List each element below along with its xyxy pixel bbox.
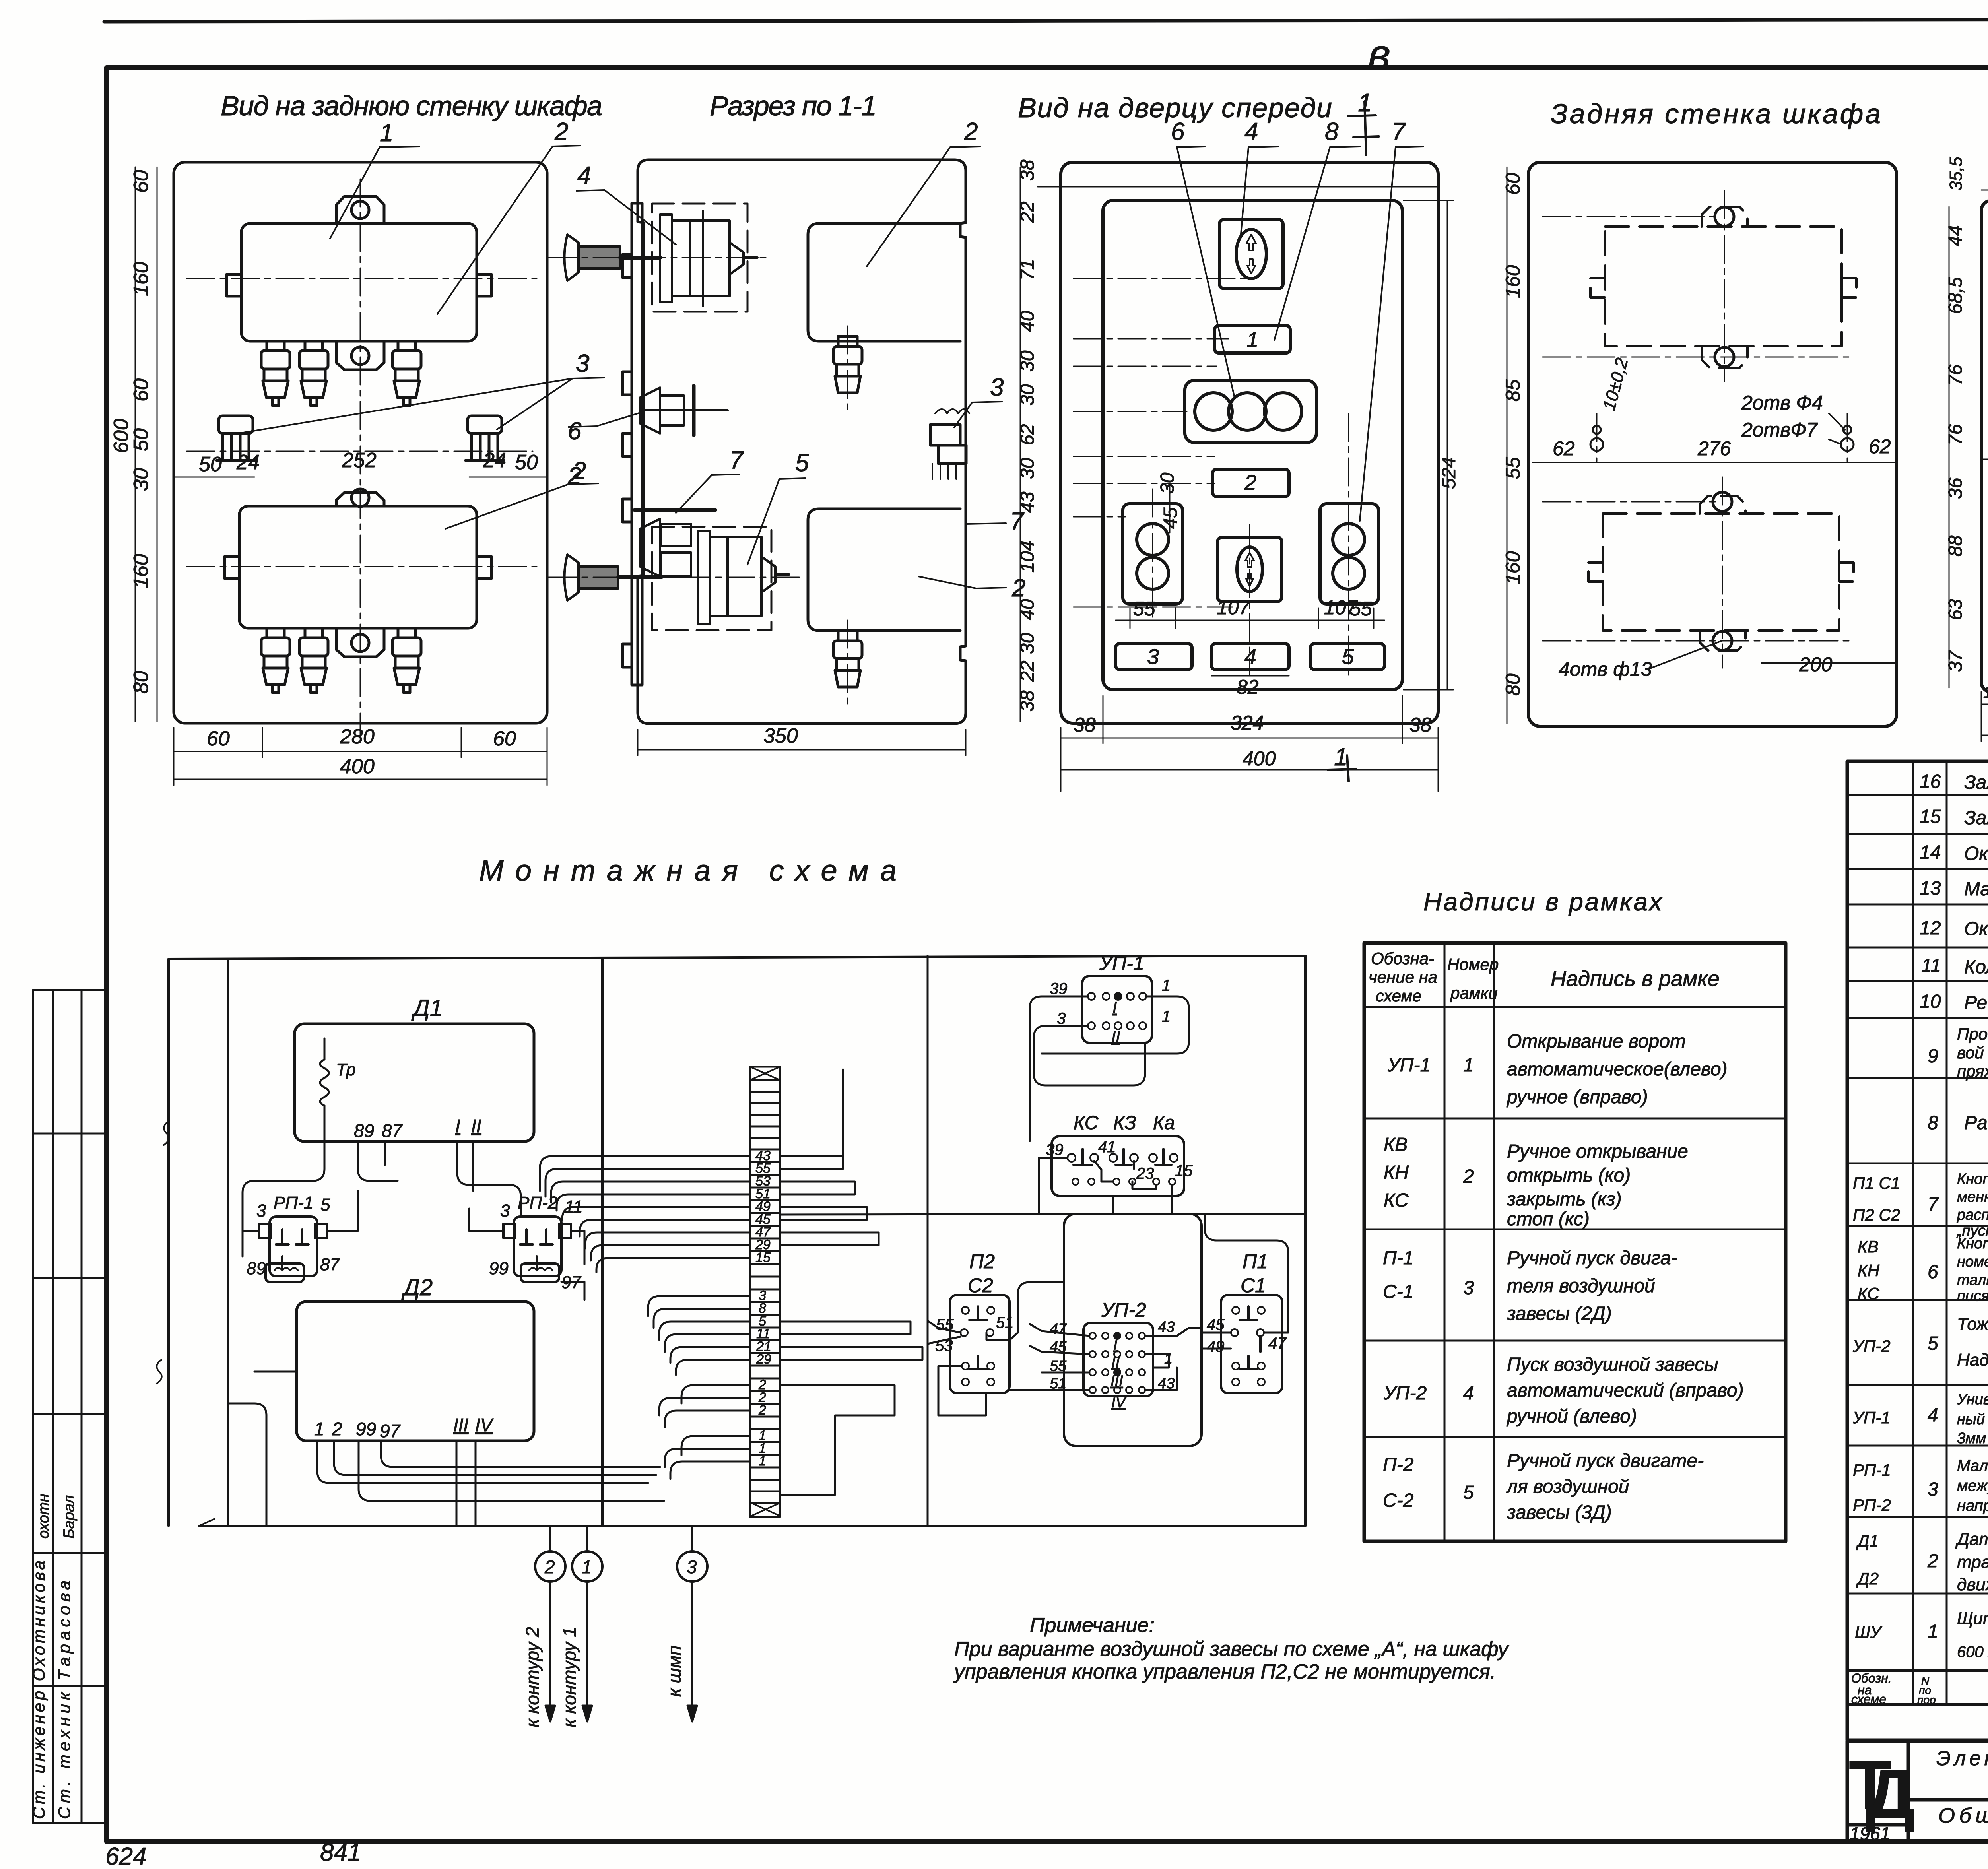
svg-text:30: 30	[1017, 633, 1038, 654]
svg-text:45: 45	[1207, 1316, 1225, 1333]
svg-text:Задняя стенка шкафа: Задняя стенка шкафа	[1551, 98, 1881, 129]
svg-text:1: 1	[759, 1454, 766, 1469]
wires: D1/D2 to strip and relays	[228, 1133, 664, 1526]
svg-text:45: 45	[1160, 507, 1181, 529]
svg-text:62: 62	[1553, 437, 1575, 460]
svg-text:1: 1	[1246, 328, 1258, 352]
svg-text:завесы (2Д): завесы (2Д)	[1507, 1303, 1612, 1324]
svg-text:П-1: П-1	[1383, 1248, 1413, 1269]
spec rows text	[1852, 771, 1988, 1661]
svg-text:23: 23	[1136, 1165, 1154, 1182]
wires from buttons block	[1039, 1158, 1172, 1214]
svg-text:3: 3	[1463, 1277, 1474, 1298]
svg-text:4: 4	[1463, 1383, 1474, 1404]
svg-text:38: 38	[1017, 690, 1038, 712]
relay item3 on right wall	[930, 425, 960, 445]
svg-text:62: 62	[1017, 424, 1038, 445]
svg-text:38: 38	[1409, 714, 1432, 736]
svg-text:Ручное открывание: Ручное открывание	[1507, 1141, 1688, 1162]
svg-text:Надписи в рамках: Надписи в рамках	[1423, 887, 1663, 916]
svg-text:2отв Ф4: 2отв Ф4	[1741, 392, 1823, 414]
wires UP-1	[1030, 996, 1189, 1141]
svg-text:II: II	[1111, 1355, 1120, 1371]
spec header row	[1851, 1671, 1988, 1739]
svg-text:5: 5	[1928, 1333, 1938, 1354]
svg-text:III: III	[1110, 1373, 1123, 1390]
door chambers seen in section	[808, 223, 969, 687]
SPECIFICATION TABLE	[1847, 761, 1988, 1740]
svg-text:29: 29	[756, 1352, 771, 1367]
svg-text:тального расположения с опера: тального расположения с оперативными над…	[1957, 1272, 1988, 1289]
view2 centerlines	[549, 258, 848, 704]
relay RP-2	[503, 1217, 571, 1282]
svg-text:24: 24	[483, 449, 506, 472]
svg-text:60: 60	[130, 378, 153, 402]
VIEW 2 : section 1-1	[623, 160, 966, 724]
svg-text:41: 41	[1098, 1138, 1116, 1156]
terminal circle 2	[535, 1551, 565, 1582]
D2 cable connectors x3	[261, 628, 290, 693]
svg-text:РП-2: РП-2	[1853, 1496, 1891, 1514]
svg-text:15: 15	[1175, 1162, 1193, 1180]
svg-text:5: 5	[320, 1195, 330, 1215]
svg-text:39: 39	[1050, 980, 1068, 998]
svg-text:47: 47	[1268, 1335, 1287, 1352]
VIEW 5 : cabinet door plate	[1981, 200, 1988, 692]
svg-text:Щит шкафной малогабаритный: Щит шкафной малогабаритный	[1957, 1609, 1988, 1628]
svg-text:3: 3	[256, 1201, 266, 1221]
svg-text:8: 8	[1325, 118, 1339, 146]
svg-text:С-1: С-1	[1383, 1281, 1413, 1302]
svg-text:85: 85	[1502, 379, 1524, 402]
svg-text:7: 7	[730, 446, 744, 474]
connector under upper chamber	[838, 336, 857, 347]
svg-text:Барал: Барал	[61, 1495, 78, 1539]
svg-text:Примечание:: Примечание:	[1030, 1614, 1155, 1637]
svg-text:2: 2	[554, 118, 568, 146]
cabinet body section outline	[638, 160, 966, 724]
svg-text:Пуск воздушной завесы: Пуск воздушной завесы	[1507, 1354, 1718, 1375]
svg-text:3: 3	[687, 1557, 697, 1577]
svg-text:УП-1: УП-1	[1099, 952, 1144, 974]
svg-text:писями „ открыть“ „закрыть“: писями „ открыть“ „закрыть“ „стоп“	[1957, 1288, 1988, 1304]
svg-text:РП-1: РП-1	[1853, 1461, 1891, 1479]
svg-text:Универсальный переключатель дв: Универсальный переключатель двух-секцион…	[1957, 1391, 1988, 1408]
push buttons P2 S2	[1123, 504, 1182, 604]
svg-text:Зажимы коммутационные: Зажимы коммутационные	[1964, 772, 1988, 793]
svg-text:Разрез по 1-1: Разрез по 1-1	[710, 90, 877, 121]
svg-text:УП-1: УП-1	[1852, 1408, 1891, 1427]
svg-text:71: 71	[1017, 259, 1038, 280]
svg-text:1: 1	[1162, 977, 1171, 994]
svg-text:закрыть (кз): закрыть (кз)	[1507, 1189, 1622, 1210]
svg-text:Д: Д	[1866, 1755, 1915, 1833]
svg-text:Д2: Д2	[401, 1275, 433, 1300]
svg-text:1: 1	[582, 1557, 592, 1577]
wire drop 3	[691, 1526, 693, 1551]
frame 2	[1213, 469, 1289, 497]
svg-text:80: 80	[1502, 673, 1524, 696]
svg-text:30: 30	[130, 468, 153, 491]
svg-text:200: 200	[1799, 653, 1833, 675]
svg-text:10: 10	[1920, 991, 1941, 1012]
svg-text:Тоже четырехсекционный: Тоже четырехсекционный	[1957, 1314, 1988, 1334]
wire drop 2	[549, 1526, 551, 1551]
svg-text:пряжи, лакированный сеч. 1,5: пряжи, лакированный сеч. 1,5 кв. мм.	[1957, 1062, 1988, 1081]
svg-text:ШУ: ШУ	[1855, 1623, 1883, 1642]
door inner panel	[1103, 200, 1402, 690]
svg-text:276: 276	[1697, 437, 1731, 460]
svg-text:I: I	[1112, 999, 1117, 1017]
VIEW 4 : rear wall plate	[1528, 162, 1897, 726]
svg-text:40: 40	[1017, 599, 1038, 620]
svg-text:ля воздушной: ля воздушной	[1506, 1476, 1629, 1497]
view5 dims	[1949, 190, 1988, 741]
svg-text:Номер: Номер	[1447, 955, 1499, 974]
svg-text:2: 2	[567, 462, 581, 490]
svg-text:Д2: Д2	[1856, 1569, 1879, 1588]
view1 dimension lines	[135, 167, 547, 785]
D1 side lugs	[227, 274, 241, 296]
svg-text:99: 99	[489, 1259, 509, 1278]
svg-text:841: 841	[320, 1839, 361, 1866]
svg-text:УП-2: УП-2	[1852, 1337, 1891, 1355]
svg-text:22: 22	[1017, 202, 1038, 223]
svg-text:7: 7	[1392, 118, 1406, 146]
svg-text:к контуру 2: к контуру 2	[522, 1627, 543, 1727]
svg-text:автоматическое(влево): автоматическое(влево)	[1507, 1059, 1728, 1080]
wires UP-2	[1010, 1324, 1202, 1390]
svg-text:2: 2	[1927, 1551, 1938, 1572]
svg-text:Датчик. Аппарат для подсчета: Датчик. Аппарат для подсчета	[1955, 1529, 1988, 1549]
connector under lower chamber	[838, 631, 857, 641]
wire: left vertical 1	[167, 959, 170, 1526]
svg-text:КН: КН	[1384, 1162, 1409, 1183]
svg-text:7: 7	[1928, 1194, 1939, 1215]
wire: right vertical	[1304, 956, 1307, 1526]
VIEW 1 : rear wall of cabinet, view	[174, 162, 547, 723]
wires P2S2	[928, 956, 1064, 1526]
svg-text:КС: КС	[1074, 1112, 1099, 1133]
svg-text:2отвФ7: 2отвФ7	[1741, 419, 1818, 441]
svg-text:2: 2	[964, 118, 978, 146]
svg-text:Тр: Тр	[336, 1060, 356, 1079]
svg-text:С1: С1	[1241, 1274, 1266, 1296]
svg-text:к контуру 1: к контуру 1	[559, 1627, 580, 1727]
svg-text:IV: IV	[475, 1415, 494, 1435]
svg-text:3: 3	[1928, 1479, 1938, 1500]
terminal comb block item3 left	[217, 416, 255, 460]
terminals to contours	[535, 1526, 707, 1721]
device D2 body	[239, 506, 477, 628]
svg-text:Общий вид и монтажная схем: Общий вид и монтажная схема шкафа	[1938, 1804, 1988, 1828]
door outer outline	[1061, 162, 1438, 723]
switch UP-2	[1083, 1323, 1153, 1396]
svg-text:43: 43	[1158, 1319, 1175, 1335]
svg-text:1: 1	[1162, 1008, 1171, 1025]
sensor D2	[297, 1302, 534, 1441]
svg-text:ручное (вправо): ручное (вправо)	[1506, 1087, 1648, 1108]
svg-text:4: 4	[577, 162, 591, 189]
svg-text:35,5: 35,5	[1946, 157, 1966, 191]
buttons P2 S2	[950, 1295, 1010, 1393]
svg-text:III: III	[453, 1415, 469, 1435]
svg-text:схеме: схеме	[1376, 986, 1422, 1005]
svg-text:Д1: Д1	[411, 995, 443, 1021]
view1 dimension numbers	[110, 170, 538, 778]
dashed device footprint bottom	[1588, 496, 1854, 650]
svg-text:РП-1: РП-1	[274, 1193, 313, 1213]
svg-text:управления кнопка управления П: управления кнопка управления П2,С2 не мо…	[953, 1660, 1496, 1683]
svg-text:47: 47	[1050, 1321, 1067, 1337]
svg-text:51: 51	[996, 1314, 1014, 1331]
small holes mid	[1590, 426, 1854, 451]
svg-text:160: 160	[130, 554, 153, 588]
svg-text:рамки: рамки	[1450, 984, 1498, 1002]
svg-text:2: 2	[1244, 471, 1256, 495]
svg-text:УП-2: УП-2	[1383, 1383, 1427, 1404]
svg-text:160: 160	[130, 262, 153, 296]
wire: top bus	[169, 956, 1305, 959]
D1 top mounting tab	[336, 196, 384, 223]
svg-text:4отв ф13: 4отв ф13	[1559, 658, 1652, 680]
D1 bottom mounting tab	[336, 341, 384, 370]
svg-text:Провод гибкий с медными жилами: Провод гибкий с медными жилами с резино-	[1957, 1025, 1988, 1043]
svg-text:КВ: КВ	[1384, 1134, 1408, 1155]
svg-text:П2 С2: П2 С2	[1853, 1205, 1900, 1224]
svg-text:5: 5	[1463, 1482, 1474, 1503]
view3 right dim line 524	[1061, 200, 1453, 791]
view3 dims left chain	[1020, 167, 1438, 722]
svg-text:менклатурный N1111 2 0,01, дл: менклатурный N1111 2 0,01, для вертикаль…	[1957, 1189, 1988, 1205]
svg-text:60: 60	[130, 170, 153, 193]
svg-text:2: 2	[332, 1419, 342, 1439]
svg-text:22: 22	[1017, 661, 1038, 682]
upper knob with hatched shaft	[565, 235, 579, 281]
VIEW 3 : door front view	[1061, 162, 1438, 723]
terminal comb block item3 right	[466, 416, 504, 460]
svg-text:36: 36	[1945, 477, 1966, 499]
note text	[953, 1614, 1509, 1683]
svg-text:I: I	[1113, 1337, 1118, 1353]
svg-text:15: 15	[1920, 806, 1941, 827]
svg-text:252: 252	[342, 449, 377, 472]
view1 centerlines	[187, 179, 537, 736]
svg-text:в: в	[1368, 30, 1390, 79]
svg-text:Обозна-: Обозна-	[1371, 949, 1434, 968]
svg-text:99: 99	[356, 1419, 376, 1439]
svg-text:транспорта на одну полосу: транспорта на одну полосу	[1957, 1553, 1988, 1572]
svg-text:50: 50	[515, 451, 538, 474]
wire: left vertical 2	[227, 959, 229, 1525]
svg-text:8: 8	[1928, 1112, 1938, 1133]
svg-text:Надпись в рамке: Надпись в рамке	[1551, 967, 1720, 991]
D2 side lugs	[225, 557, 239, 578]
svg-text:97: 97	[380, 1421, 401, 1441]
svg-text:50: 50	[199, 453, 222, 476]
svg-text:60: 60	[207, 727, 230, 750]
svg-text:С-2: С-2	[1383, 1490, 1413, 1511]
terminal numbers	[755, 1148, 771, 1469]
svg-text:Ручной пуск двига-: Ручной пуск двига-	[1507, 1248, 1677, 1269]
buttons P1 S1	[1221, 1295, 1282, 1393]
svg-text:Кнопка управления трех-элемен: Кнопка управления трех-элементная	[1957, 1235, 1988, 1252]
svg-text:62: 62	[1869, 435, 1891, 458]
view4 centerlines	[1543, 191, 1853, 668]
frame 1	[1215, 326, 1290, 353]
svg-text:стоп (кс): стоп (кс)	[1507, 1209, 1590, 1230]
svg-text:60: 60	[493, 727, 516, 750]
buttons KS KZ KA block	[1052, 1136, 1184, 1196]
svg-text:1: 1	[1334, 743, 1347, 771]
wires: strip right connections	[780, 1069, 1305, 1495]
svg-text:17,5: 17,5	[1983, 683, 1988, 701]
svg-text:50: 50	[130, 428, 153, 451]
svg-text:2: 2	[1463, 1166, 1474, 1187]
push buttons P1 S1	[1320, 504, 1378, 604]
svg-text:49: 49	[1207, 1338, 1225, 1355]
svg-text:40: 40	[1017, 311, 1038, 332]
svg-text:автоматический (вправо): автоматический (вправо)	[1507, 1380, 1744, 1401]
svg-text:30: 30	[1157, 472, 1178, 494]
device D1 body	[241, 223, 477, 341]
svg-text:Ка: Ка	[1153, 1112, 1175, 1133]
terminal circle 1	[572, 1551, 602, 1582]
sensor D1	[295, 1024, 534, 1141]
svg-text:2: 2	[544, 1557, 555, 1577]
D2 bottom tab	[336, 628, 384, 657]
view1 leader callouts	[239, 146, 604, 529]
svg-text:44: 44	[1945, 225, 1966, 246]
svg-text:3: 3	[990, 374, 1004, 401]
D1 cable connectors x3	[261, 341, 290, 406]
switch UP-1	[1082, 976, 1152, 1043]
D2 top tab	[336, 493, 384, 506]
svg-text:Открывание ворот: Открывание ворот	[1507, 1031, 1686, 1052]
wires P1S1	[1202, 1214, 1288, 1349]
svg-text:15: 15	[755, 1250, 771, 1265]
lower knob hatched	[565, 555, 579, 600]
svg-text:6: 6	[1171, 118, 1185, 146]
svg-text:87: 87	[382, 1120, 403, 1141]
svg-text:3мм . Надпись на розетке N23: 3мм . Надпись на розетке N23	[1957, 1430, 1988, 1447]
svg-text:524: 524	[1439, 457, 1460, 489]
svg-text:С2: С2	[968, 1274, 993, 1296]
svg-text:Малогабаритное электромагнитн: Малогабаритное электромагнитное про-	[1957, 1457, 1988, 1475]
svg-text:600 х 400 х 350 ГОСТ -3244-: 600 х 400 х 350 ГОСТ -3244-56	[1957, 1643, 1988, 1661]
svg-text:II: II	[1111, 1029, 1120, 1046]
svg-text:Кнопка управления двух-элемен: Кнопка управления двух-элементная но-	[1957, 1171, 1988, 1188]
svg-text:IV: IV	[1111, 1394, 1127, 1411]
svg-text:1: 1	[1928, 1621, 1938, 1642]
svg-text:Зажимы коммутационные: Зажимы коммутационные	[1964, 807, 1988, 829]
svg-text:280: 280	[340, 725, 375, 748]
svg-text:3: 3	[1057, 1010, 1066, 1027]
svg-text:П2: П2	[969, 1250, 995, 1273]
svg-text:104: 104	[1017, 541, 1038, 573]
svg-text:Рамки для надписей: Рамки для надписей	[1964, 1112, 1988, 1133]
svg-text:КВ: КВ	[1858, 1237, 1879, 1256]
wire: bottom bus	[199, 1525, 1305, 1527]
svg-text:Колодка маркировочная: Колодка маркировочная	[1964, 957, 1988, 978]
resistor Tr inside D1	[320, 1038, 329, 1133]
lower assembly plate and rod item7	[634, 508, 716, 512]
svg-text:11: 11	[1921, 955, 1941, 976]
frames 3 4 5	[1116, 644, 1192, 670]
svg-text:400: 400	[340, 755, 375, 778]
svg-text:350: 350	[763, 724, 798, 747]
terminal strip	[750, 1067, 780, 1517]
svg-text:3: 3	[576, 350, 589, 377]
svg-text:3: 3	[1147, 645, 1159, 669]
svg-text:II: II	[471, 1116, 481, 1136]
svg-text:Рейка зажимов: Рейка зажимов	[1964, 992, 1988, 1013]
svg-text:пор: пор	[1917, 1694, 1936, 1706]
dashed device footprint top	[1590, 207, 1856, 368]
upper drum body	[660, 215, 672, 302]
svg-text:76: 76	[1945, 364, 1966, 386]
svg-text:Оконцеватели маркировочные: Оконцеватели маркировочные	[1964, 843, 1988, 864]
svg-text:Надпись на розетке N24: Надпись на розетке N24	[1957, 1350, 1988, 1370]
svg-text:движения.: движения.	[1957, 1575, 1988, 1594]
svg-text:Оконцеватели изоляционные: Оконцеватели изоляционные	[1964, 918, 1988, 939]
svg-text:Ручной пуск двигате-: Ручной пуск двигате-	[1507, 1450, 1704, 1471]
svg-text:Электрическая часть распашных: Электрическая часть распашных ворот	[1936, 1747, 1988, 1770]
svg-text:I: I	[455, 1116, 460, 1136]
svg-text:1961: 1961	[1850, 1823, 1890, 1844]
svg-text:охотн: охотн	[35, 1494, 52, 1539]
svg-text:КЗ: КЗ	[1113, 1112, 1136, 1133]
svg-text:4: 4	[1928, 1405, 1938, 1426]
svg-text:2: 2	[758, 1403, 766, 1418]
svg-text:24: 24	[236, 451, 260, 474]
svg-text:55: 55	[1133, 598, 1155, 620]
relay RP-1	[259, 1217, 327, 1282]
lower wiring loop around UP-2	[1064, 1214, 1202, 1446]
svg-text:напряжением 24в: напряжением 24в	[1957, 1497, 1988, 1514]
wire drop 1	[586, 1526, 588, 1551]
svg-text:43: 43	[1017, 491, 1038, 513]
svg-text:624: 624	[105, 1843, 146, 1869]
svg-text:1: 1	[314, 1419, 324, 1439]
item6 small reel on panel	[640, 386, 728, 435]
svg-text:КН: КН	[1858, 1261, 1880, 1280]
terminal circle 3	[677, 1551, 707, 1582]
svg-text:вой изоляцией в оплетке из х: вой изоляцией в оплетке из хл. бум.	[1957, 1043, 1988, 1062]
svg-text:5: 5	[795, 449, 809, 477]
svg-text:4: 4	[1244, 118, 1258, 146]
bottom dims	[1103, 612, 1104, 644]
svg-text:30: 30	[1017, 384, 1038, 406]
wires: strip left nested brackets	[540, 1156, 750, 1479]
svg-text:Д1: Д1	[1856, 1531, 1879, 1550]
svg-text:68,5: 68,5	[1945, 277, 1966, 314]
view2 dims	[638, 730, 966, 755]
view titles	[221, 88, 1988, 129]
svg-text:89: 89	[247, 1259, 266, 1278]
lamp box item4	[1219, 219, 1283, 289]
svg-text:55: 55	[1502, 457, 1524, 479]
svg-text:89: 89	[354, 1120, 374, 1141]
TITLE BLOCK	[1847, 1741, 1988, 1842]
svg-text:37: 37	[1945, 650, 1966, 672]
svg-text:80: 80	[130, 671, 153, 694]
svg-text:П-2: П-2	[1383, 1454, 1413, 1475]
svg-text:3: 3	[500, 1201, 510, 1221]
schema outer wiring frame	[169, 956, 1305, 1526]
svg-text:открыть (ко): открыть (ко)	[1507, 1165, 1631, 1186]
svg-text:1: 1	[380, 119, 393, 147]
